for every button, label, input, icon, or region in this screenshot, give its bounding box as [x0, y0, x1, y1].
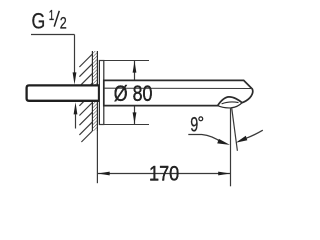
- 170 dimension extension line (wall): [96, 131, 98, 183]
- diameter 80 dimension line with arrows: [134, 61, 136, 124]
- right side arc with arrow: [246, 130, 262, 138]
- aerator (mousseur): [218, 103, 243, 108]
- svg-text:9: 9: [190, 113, 198, 136]
- arrow up to pipe bottom: [74, 102, 78, 114]
- G 1/2 label: [32, 8, 67, 34]
- svg-text:G: G: [32, 9, 46, 34]
- spout body outline: [104, 80, 253, 105]
- G1/2 leader underline and vertical to arrow: [31, 35, 75, 74]
- svg-text:170: 170: [149, 161, 179, 185]
- angle vertex extension: vertical line: [230, 108, 232, 186]
- svg-text:2: 2: [60, 15, 67, 33]
- supply pipe (G 1/2 connection): [27, 85, 99, 100]
- svg-text:1: 1: [49, 8, 54, 24]
- wall hatching (far-side tick lines): [79, 54, 92, 142]
- spout inner ridge line: [104, 87, 252, 89]
- angle leader: underline then curve to left arrow: [188, 135, 222, 143]
- diameter 80 extension lines: [99, 61, 149, 125]
- wall cross-section band: [92, 51, 97, 131]
- 170 dimension line: [97, 173, 230, 175]
- arrow down to pipe top: [73, 72, 77, 84]
- tilted 9 degree line: [232, 108, 238, 151]
- svg-text:Ø 80: Ø 80: [114, 81, 153, 106]
- wall flange / escutcheon: [99, 61, 103, 125]
